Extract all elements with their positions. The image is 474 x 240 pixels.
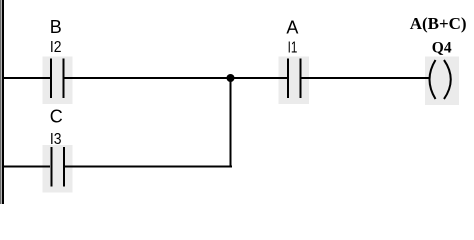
contact A background pad: [279, 57, 310, 105]
contact B background pad: [43, 57, 73, 105]
contact C: [52, 147, 65, 187]
junction node: [227, 74, 235, 82]
svg-text:B: B: [50, 17, 62, 37]
wire: contact B to contact A (through junction): [65, 77, 288, 79]
coil Q4 background pad: [425, 57, 459, 106]
contact C background pad: [43, 145, 73, 193]
left power rail: [2, 0, 4, 204]
wire: rail to contact C: [4, 166, 50, 168]
svg-text:I1: I1: [288, 38, 298, 56]
coil Q4: [430, 60, 451, 99]
left screen edge strip: [0, 0, 2, 204]
svg-text:I2: I2: [50, 38, 62, 56]
svg-text:Q4: Q4: [432, 40, 452, 57]
svg-text:C: C: [50, 107, 63, 127]
contact A: [288, 59, 301, 99]
wire: contact C to branch vertical: [65, 166, 232, 168]
svg-text:A(B+C): A(B+C): [410, 14, 467, 33]
contact B: [51, 59, 64, 99]
svg-text:I3: I3: [50, 130, 62, 148]
wire: branch vertical from junction down: [230, 78, 232, 167]
wire: rail to contact B: [4, 77, 50, 79]
wire: contact A to coil Q4: [302, 77, 430, 79]
svg-text:A: A: [286, 18, 298, 38]
